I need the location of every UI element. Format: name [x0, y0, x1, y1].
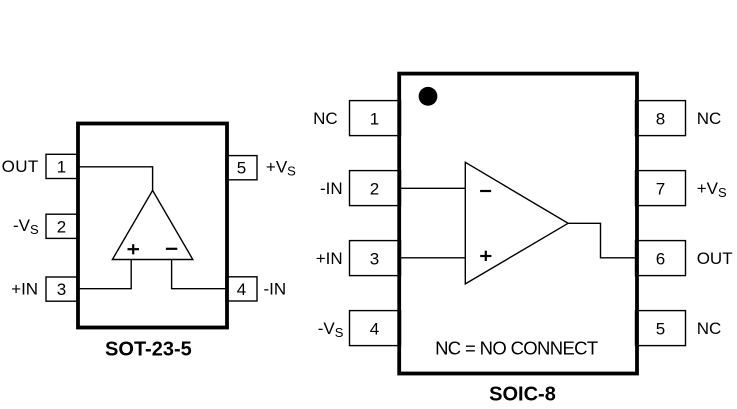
svg-text:6: 6	[656, 249, 665, 268]
wire +IN pin3 to op-amp + input	[400, 257, 465, 259]
svg-text:NC: NC	[697, 109, 722, 128]
pin 5 box	[636, 311, 686, 346]
svg-text:+IN: +IN	[11, 279, 38, 298]
svg-text:NC: NC	[697, 319, 722, 338]
minus symbol (- input)	[480, 190, 491, 192]
op-amp A1 triangle	[112, 190, 192, 259]
svg-text:7: 7	[656, 179, 665, 198]
package body SOT-23-5	[78, 124, 227, 328]
svg-text:3: 3	[370, 249, 379, 268]
svg-text:1: 1	[370, 109, 379, 128]
pin 7 box	[636, 171, 686, 206]
pin 6 box	[636, 241, 686, 276]
pin 4 box	[350, 311, 401, 346]
pin 2 box	[46, 214, 77, 238]
svg-text:SOIC-8: SOIC-8	[489, 384, 556, 406]
svg-text:5: 5	[656, 319, 665, 338]
pin 1 box	[350, 101, 401, 136]
svg-text:SOT-23-5: SOT-23-5	[105, 338, 192, 360]
plus symbol (+ input)	[128, 244, 140, 254]
pin 3 box	[46, 277, 77, 301]
svg-text:OUT: OUT	[2, 157, 39, 176]
wire OUT pin1 to op-amp output	[78, 167, 153, 191]
svg-text:8: 8	[656, 109, 665, 128]
svg-text:-IN: -IN	[264, 280, 287, 299]
svg-text:NC: NC	[313, 109, 338, 128]
svg-text:4: 4	[370, 319, 379, 338]
pin 3 box	[350, 241, 401, 276]
pin 1 indicator dot	[419, 87, 438, 106]
pin 2 box	[350, 171, 401, 206]
svg-text:3: 3	[57, 280, 66, 299]
package body SOIC-8	[399, 74, 637, 374]
wire -IN pin4 to op-amp - input	[172, 260, 227, 289]
pin 4 box	[226, 277, 257, 301]
wire +IN pin3 to op-amp + input	[78, 260, 131, 289]
plus symbol (+ input)	[480, 251, 491, 261]
svg-text:OUT: OUT	[697, 249, 733, 268]
pin 8 box	[636, 101, 686, 136]
svg-text:1: 1	[57, 157, 66, 176]
svg-text:-IN: -IN	[320, 179, 343, 198]
minus symbol (- input)	[166, 248, 177, 250]
svg-text:NC = NO CONNECT: NC = NO CONNECT	[435, 338, 598, 359]
svg-text:+IN: +IN	[316, 249, 343, 268]
wire -IN pin2 to op-amp - input	[400, 187, 465, 189]
pin 1 box	[46, 154, 77, 178]
svg-text:5: 5	[237, 159, 246, 178]
pin 5 box	[226, 156, 257, 180]
wire op-amp output to pin 6	[568, 223, 636, 257]
svg-text:2: 2	[370, 179, 379, 198]
svg-text:2: 2	[57, 217, 66, 236]
op-amp A2 triangle	[465, 162, 568, 284]
svg-text:4: 4	[237, 280, 246, 299]
